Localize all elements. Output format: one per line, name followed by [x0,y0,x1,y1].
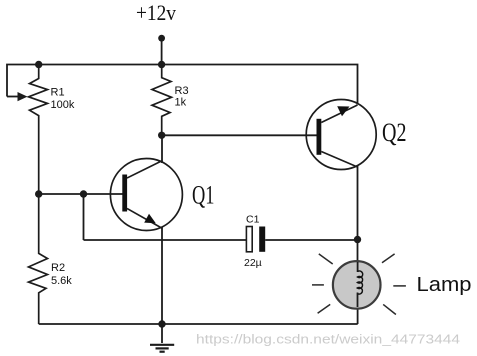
svg-text:R3: R3 [175,85,189,97]
+12v terminal dot [158,35,165,42]
node dot rail-R1 [35,61,42,68]
wire lamp bottom to rail [357,307,359,324]
transistor Q2 [306,100,376,170]
svg-text:Lamp: Lamp [417,273,472,296]
lamp [333,261,381,309]
resistor R1 [29,65,48,195]
svg-text:https://blog.csdn.net/weixin_4: https://blog.csdn.net/weixin_44773444 [196,332,460,347]
wire base-node drop to C1 line [83,194,85,240]
svg-text:100k: 100k [51,99,75,111]
capacitor C1 [246,227,265,252]
svg-text:Q1: Q1 [192,181,215,210]
wire Q2 base wire from R3 node [162,134,317,136]
resistor R3 [152,65,172,136]
label R2 5.6k [51,262,72,287]
svg-text:R2: R2 [51,262,65,274]
wire Q1 collector drop from R3 node [161,135,163,163]
label R3 1k [175,85,189,108]
label R1 100k [51,87,75,111]
transistor Q1 [110,159,182,231]
svg-text:5.6k: 5.6k [51,275,72,287]
wire C1 left feed [84,239,247,241]
wire wiper horizontal into R1 [7,96,18,98]
label C1 22u [244,214,262,270]
node dot ground rail [158,320,165,327]
ground [150,324,174,352]
wire bottom ground rail [39,323,358,325]
node dot C1-lamp [354,236,361,243]
svg-text:R1: R1 [51,87,65,99]
resistor R2 [29,194,48,324]
svg-text:Q2: Q2 [382,118,407,147]
wire top rail with left wiper stub and right drop to Q2 [7,65,358,105]
node dot rail-+12v [158,61,165,68]
lamp rays [312,254,406,315]
wiper arrow head [18,92,28,101]
wire Q1 base wire [39,193,123,195]
svg-text:22µ: 22µ [244,257,262,269]
svg-text:1k: 1k [175,96,187,108]
node dot base drop [80,190,87,197]
wire +12v stub [161,38,163,64]
wire Q2 collector drop to lamp [357,166,359,263]
svg-text:C1: C1 [246,214,260,226]
node dot R1-R2-base [35,190,42,197]
node dot R3-Q1 collector [158,132,165,139]
wire C1 right feed to lamp node [265,239,357,241]
svg-text:+12v: +12v [136,0,176,25]
wire Q1 emitter drop to ground rail [161,227,163,325]
